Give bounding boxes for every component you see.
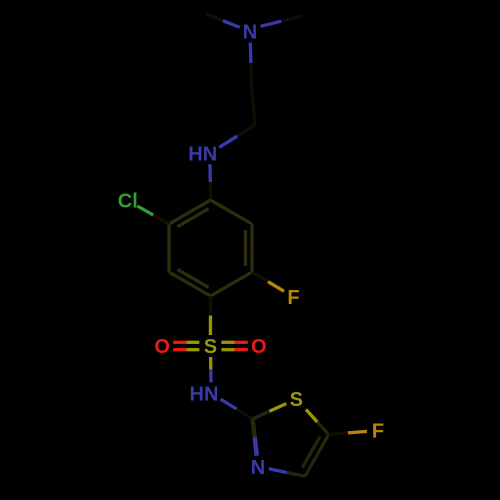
bond N1-C1 xyxy=(250,43,251,85)
bond C5-F xyxy=(329,431,367,434)
svg-text:S: S xyxy=(290,389,303,411)
svg-text:O: O xyxy=(154,336,170,358)
bond C-Cl xyxy=(137,206,169,224)
svg-text:O: O xyxy=(251,336,267,358)
svg-text:HN: HN xyxy=(188,143,217,165)
thiazole bond N3-C4 xyxy=(269,469,305,476)
bond N1-CH3 right xyxy=(261,16,302,26)
thiazole bond S1-C5 xyxy=(306,410,329,435)
bond S=O right xyxy=(221,342,247,349)
thiazole bond C4=C5 xyxy=(302,434,328,476)
bond N1-CH3 left xyxy=(206,14,240,27)
bond C-S xyxy=(209,296,212,335)
ring bond V5-V6 xyxy=(167,224,170,272)
svg-text:HN: HN xyxy=(190,384,219,406)
svg-text:N: N xyxy=(251,457,265,479)
bond NH-C2 thiazole xyxy=(221,399,253,419)
ring bond V2=V3 xyxy=(246,224,253,272)
bond S-NH xyxy=(209,357,213,382)
thiazole bond C2=N3 xyxy=(253,419,257,456)
svg-text:Cl: Cl xyxy=(118,191,138,213)
bond C1-C2 xyxy=(252,84,256,125)
ring bond V1-V2 xyxy=(211,200,253,224)
ring bond V4=V5 xyxy=(169,269,211,296)
bond C-F xyxy=(252,272,284,291)
bond NH-ring xyxy=(208,164,212,200)
bond S=O left xyxy=(173,342,199,349)
svg-text:F: F xyxy=(287,287,299,309)
svg-text:F: F xyxy=(372,421,384,443)
bond C2-NH xyxy=(219,125,255,147)
ring bond V6=V1 xyxy=(169,200,211,227)
thiazole bond C2-S1 xyxy=(253,404,287,419)
svg-text:S: S xyxy=(204,336,217,358)
ring bond V3-V4 xyxy=(211,272,253,296)
svg-text:N: N xyxy=(243,22,257,44)
